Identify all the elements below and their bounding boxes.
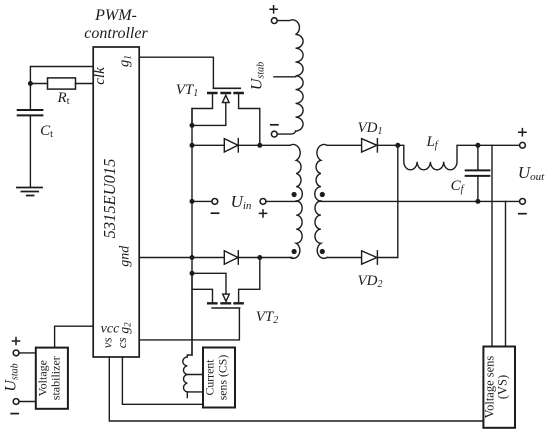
terminal Uout plus [520, 142, 526, 148]
svg-text:VD2: VD2 [358, 273, 383, 290]
wire stab winding tap stub [274, 76, 296, 78]
block current sens CS [203, 348, 235, 408]
block voltage sens VS [483, 347, 515, 428]
wire Uin minus [192, 200, 212, 202]
svg-text:Uin: Uin [231, 192, 252, 212]
wire VS sense plus [491, 145, 493, 346]
node RC timing junction [28, 81, 33, 86]
wire top primary row [192, 144, 290, 146]
diode clamp D2 [224, 251, 238, 264]
wire VS sense minus [505, 201, 507, 346]
IC U1 PWM controller 5315EU015 box [93, 47, 139, 357]
svg-text:controller: controller [84, 25, 148, 42]
svg-text:Ustab: Ustab [3, 363, 21, 391]
wire g2 to VT2 gate [139, 309, 239, 340]
rotated IC pin labels [92, 55, 134, 348]
transformer secondary upper winding [315, 145, 327, 201]
transformer secondary lower winding [315, 201, 327, 258]
svg-text:VT1: VT1 [176, 82, 199, 99]
svg-text:Voltage sens: Voltage sens [483, 356, 497, 419]
svg-text:stabilizer: stabilizer [49, 356, 63, 400]
svg-text:Ct: Ct [40, 123, 53, 140]
svg-text:PWM-: PWM- [94, 7, 137, 24]
svg-text:cs: cs [114, 337, 129, 348]
diode VD2 [362, 251, 377, 264]
rotated voltage labels [3, 62, 267, 392]
capacitor Ct [29, 84, 31, 110]
svg-text:Ustab: Ustab [249, 62, 267, 90]
svg-text:Uout: Uout [518, 163, 545, 183]
transistor Q2 VT2 [192, 258, 260, 309]
wire input bus vertical [191, 109, 193, 356]
transformer primary lower winding [290, 201, 302, 258]
node dots transformer polarity [292, 192, 297, 197]
block voltage stabilizer [36, 348, 68, 409]
wire VD1 cathode to Lf node [377, 144, 397, 146]
node dots bus [190, 123, 195, 128]
svg-text:5315EU015: 5315EU015 [100, 159, 119, 239]
sign stab plus [269, 5, 278, 14]
wire CT tap lower [187, 391, 203, 393]
sign Uin plus [259, 209, 268, 218]
sign stab minus [270, 124, 279, 126]
wire stab plus lead [19, 352, 36, 354]
terminal Uin plus [260, 199, 266, 205]
terminal Ustab minus bottom [13, 399, 19, 405]
ground [17, 188, 42, 196]
wire cs pin [122, 357, 203, 404]
current transformer CT [183, 273, 192, 397]
wire VD2 cathode up [377, 257, 397, 259]
svg-text:Voltage: Voltage [36, 360, 50, 396]
inductor Lf [398, 145, 520, 170]
terminal stab plus [271, 18, 277, 24]
node dots VT drains [257, 143, 262, 148]
sign Ustab bottom plus [12, 337, 21, 346]
wire vcc to stabilizer [55, 326, 94, 347]
wire vs pin bottom rail [109, 357, 483, 421]
svg-text:(VS): (VS) [496, 375, 510, 399]
wire secondary bottom to VD2 [327, 257, 362, 259]
node dots Cf [475, 143, 480, 148]
resistor Rt [48, 78, 76, 89]
wire CT tap upper [187, 374, 203, 376]
svg-text:Current: Current [203, 359, 217, 396]
wire gnd pin row / bottom primary row [139, 257, 292, 259]
sign Ustab bottom minus [10, 413, 19, 415]
wire Uin plus to primary tap [266, 200, 296, 202]
terminal Uin minus [212, 199, 218, 205]
text labels [84, 7, 148, 42]
wire stab minus lead [19, 401, 36, 403]
svg-text:Lf: Lf [425, 134, 438, 151]
diode VD1 [362, 139, 377, 152]
wire resistor left lead [30, 83, 47, 85]
transistor Q1 VT1 [192, 88, 260, 145]
wire clk pin upper [30, 67, 93, 84]
terminal Ustab plus bottom [13, 350, 19, 356]
sign Uout minus [518, 213, 527, 215]
svg-text:Rt: Rt [57, 90, 70, 107]
wire VD cathode vertical [397, 145, 399, 257]
wire secondary top to VD1 [327, 144, 362, 146]
svg-text:clk: clk [92, 67, 108, 85]
node dot VD cathode [395, 143, 400, 148]
svg-text:VD1: VD1 [358, 120, 383, 137]
diode clamp D1 [224, 139, 238, 152]
wire resistor right lead to clk [76, 83, 94, 85]
svg-text:g1: g1 [117, 55, 134, 67]
terminal Uout minus [520, 199, 526, 205]
wire secondary tap output rail [321, 200, 520, 202]
svg-text:VT2: VT2 [256, 309, 279, 326]
svg-text:Cf: Cf [451, 178, 465, 195]
sign Uout plus [518, 128, 527, 137]
terminal stab minus [271, 131, 277, 137]
svg-text:vs: vs [99, 337, 114, 348]
transformer primary upper winding [290, 145, 302, 201]
stab winding auxiliary [277, 20, 303, 134]
capacitor Cf [477, 145, 479, 169]
rotated block labels [36, 355, 510, 419]
sign Uin minus [211, 212, 220, 214]
svg-text:sens (CS): sens (CS) [216, 355, 230, 401]
svg-text:gnd: gnd [118, 245, 133, 267]
wire g1 to VT1 gate [139, 57, 213, 87]
